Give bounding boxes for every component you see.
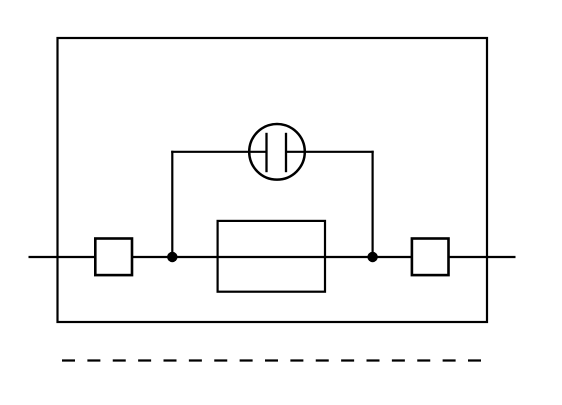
capacitor right plate: [285, 133, 287, 172]
wire: capacitor right plate to top-right branch: [286, 151, 374, 153]
node A junction dot: [167, 252, 177, 262]
outer terminal-block housing outline: [58, 38, 488, 322]
wire: top-left branch into capacitor left plate: [171, 151, 266, 153]
dashed separator line: [62, 359, 481, 361]
capacitor circle body: [249, 124, 305, 180]
fuse rectangle: [218, 221, 325, 292]
right clamp contact square: [412, 239, 449, 276]
node B junction dot: [367, 252, 377, 262]
capacitor left plate: [265, 133, 267, 172]
wire: main horizontal conductor: [29, 256, 516, 258]
wire: right riser from node B up to capacitor branch: [372, 151, 374, 257]
left clamp contact square: [95, 239, 132, 276]
wire: left riser from node A up to capacitor branch: [171, 151, 173, 257]
